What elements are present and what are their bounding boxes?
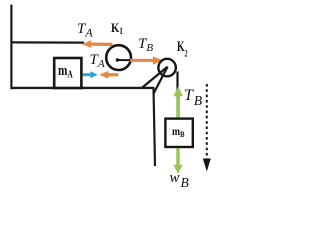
pulley K1 axle radius line bbox=[116, 58, 132, 61]
wall post bbox=[10, 5, 12, 90]
arrow T_B top (orange, pointing right toward K2) bbox=[130, 56, 162, 64]
label T_B top bbox=[138, 36, 153, 54]
pulley K2 bbox=[158, 59, 176, 77]
block mA bbox=[54, 58, 81, 88]
label mA bbox=[58, 63, 73, 81]
pulley K2 bracket strut 2 bbox=[154, 67, 168, 94]
dashed guide arrow down (right margin) bbox=[203, 84, 211, 172]
arrow T_B up (green, from block mB toward K2) bbox=[173, 86, 183, 117]
table surface bbox=[11, 87, 155, 89]
arrow T_A on block (blue, pointing right) bbox=[83, 71, 98, 78]
arrow T_A top (orange, pointing left) bbox=[82, 40, 113, 48]
label mB bbox=[172, 124, 185, 139]
block mB bbox=[165, 119, 192, 147]
pulley K2 bracket strut 1 bbox=[142, 67, 168, 88]
label T_A middle bbox=[90, 52, 105, 70]
arrow reaction (orange, pointing left at pulley K1 bottom) bbox=[99, 71, 118, 79]
label w_B bbox=[170, 170, 189, 191]
label T_B right bbox=[184, 87, 202, 109]
table leg bbox=[154, 88, 156, 167]
rope from wall to arrow tip bbox=[11, 41, 84, 43]
label K1 bbox=[111, 20, 123, 36]
rope from K2 down to block mB bbox=[176, 72, 178, 120]
pulley K1 bbox=[106, 45, 131, 70]
label K2 bbox=[177, 39, 188, 60]
label T_A top bbox=[77, 21, 93, 41]
arrow w_B down (green, weight of block mB) bbox=[173, 148, 183, 174]
